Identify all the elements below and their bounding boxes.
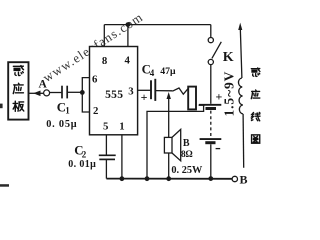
svg-text:0. 01μ: 0. 01μ (68, 159, 96, 170)
wire C1 to bus (68, 91, 83, 93)
wire bus pins 6 and 2 (82, 78, 89, 112)
wire coil upper (240, 28, 242, 78)
capacitor C4 (151, 79, 155, 101)
junction dot pin 4 (126, 22, 131, 27)
switch K blade (212, 42, 221, 59)
wire A to C1 (50, 92, 62, 94)
wire coil lower (242, 114, 245, 168)
capacitor C2 (99, 155, 116, 159)
battery minus label (216, 148, 221, 150)
coil top arrow (238, 23, 242, 30)
label 应 (plate) (13, 83, 23, 93)
svg-text:5: 5 (103, 121, 108, 133)
svg-text:2: 2 (93, 105, 98, 117)
scan artifact bottom left (0, 184, 9, 187)
label 板 (plate) (13, 101, 24, 111)
battery cell 2 (200, 138, 222, 140)
speaker B body (164, 137, 172, 153)
IC U1 555 (90, 47, 138, 135)
svg-text:B: B (183, 138, 190, 149)
battery cell 1 (199, 104, 221, 106)
jack spring contact (172, 88, 188, 94)
wire speaker to rail (168, 153, 170, 179)
wire pin 4 (127, 25, 129, 47)
wire pin 5 to C2 (105, 135, 107, 155)
junction dot battery/rail (208, 176, 213, 181)
svg-text:1: 1 (65, 106, 70, 116)
svg-text:4: 4 (124, 55, 130, 67)
earphone jack socket (188, 87, 196, 110)
wire jack return to rail (147, 105, 204, 179)
wire switch to battery (210, 65, 212, 104)
capacitor C1 (62, 86, 67, 99)
svg-text:8: 8 (102, 55, 108, 67)
wire pin 3 to C4 (138, 89, 151, 91)
svg-text:555: 555 (105, 89, 123, 101)
svg-text:1: 1 (119, 120, 124, 132)
bottom rail wire (106, 178, 232, 180)
terminal B (232, 176, 237, 181)
junction dot pin1/rail (120, 176, 125, 181)
svg-text:0. 05μ: 0. 05μ (46, 119, 77, 130)
wire pin 8 to top rail (103, 25, 105, 47)
svg-text:0. 25W: 0. 25W (171, 165, 203, 176)
label 线 (coil) (251, 112, 260, 120)
terminal A (44, 90, 50, 96)
induction coil (238, 78, 243, 114)
svg-text:6: 6 (92, 74, 98, 86)
wire speaker feed (168, 96, 170, 137)
switch K lower contact (208, 59, 213, 64)
junction dot jack return (145, 176, 150, 181)
svg-text:2: 2 (82, 149, 87, 159)
svg-text:3: 3 (128, 86, 134, 98)
wire battery to bottom rail (210, 144, 212, 178)
jack sleeve stub (199, 104, 205, 106)
induction plate box 感应板 (8, 62, 28, 119)
label 感 (plate) (13, 66, 23, 76)
svg-text:4: 4 (150, 68, 155, 78)
watermark www.elecfans.com (40, 9, 146, 85)
wire rail to switch (210, 25, 212, 38)
speaker B cone (172, 129, 181, 160)
wire C2 to rail (105, 159, 107, 178)
label 感 (coil) (251, 68, 260, 76)
wire pin 1 to rail (121, 135, 123, 179)
wire plate to terminal A (29, 92, 44, 94)
arrow into plate (33, 91, 40, 97)
label 圈 (coil) (252, 135, 260, 143)
label 应 (coil) (251, 90, 260, 99)
svg-text:B: B (240, 172, 248, 186)
junction dot speaker/rail (166, 176, 171, 181)
svg-text:+: + (141, 90, 148, 104)
scan artifact left edge (0, 104, 3, 109)
top rail wire (104, 24, 211, 26)
junction dot pins 2/6 bus (80, 90, 85, 95)
speaker feed arrow (167, 92, 171, 99)
label 1.5~9V (222, 71, 237, 117)
svg-text:47μ: 47μ (160, 66, 176, 77)
svg-text:A: A (38, 79, 47, 91)
svg-text:1.5~9V: 1.5~9V (222, 71, 237, 117)
switch K upper contact (208, 38, 213, 43)
wire C4 to jack contact (155, 90, 172, 92)
svg-text:8Ω: 8Ω (181, 149, 193, 159)
battery dashed link (210, 111, 212, 137)
svg-text:K: K (223, 50, 234, 65)
